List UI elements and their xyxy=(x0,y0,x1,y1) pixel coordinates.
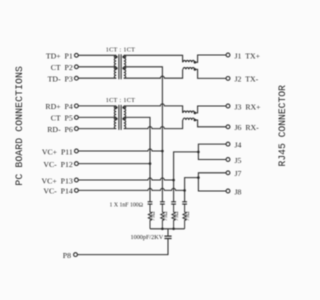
pin circle P5 xyxy=(75,116,79,120)
choke L2 bottom dot xyxy=(194,119,197,122)
svg-text:75Ω: 75Ω xyxy=(174,211,180,221)
svg-text:J3 RX+: J3 RX+ xyxy=(235,102,262,111)
capacitor C1 plates xyxy=(148,202,153,204)
svg-text:J7: J7 xyxy=(235,169,242,178)
svg-text:TD- P3: TD- P3 xyxy=(48,75,73,84)
wire P13 to rail3 (hops at rail1, rail2) xyxy=(78,178,173,180)
T2 dot primary CT xyxy=(115,118,118,121)
svg-text:P8: P8 xyxy=(63,251,71,260)
wire J7/J8 bracket xyxy=(198,173,226,191)
svg-text:1CT : 1CT: 1CT : 1CT xyxy=(106,97,136,104)
svg-text:J1 TX+: J1 TX+ xyxy=(235,51,261,60)
svg-text:75Ω: 75Ω xyxy=(185,211,191,221)
svg-text:CT P5: CT P5 xyxy=(51,114,73,123)
choke L1 top dot xyxy=(194,61,197,64)
wire T2 secondary bottom to choke L2 (hops at rail1, rail2) xyxy=(124,120,183,129)
svg-text:RD- P6: RD- P6 xyxy=(47,125,73,134)
choke L2 top winding xyxy=(183,111,195,113)
svg-text:1 X 1nF 100Ω: 1 X 1nF 100Ω xyxy=(110,203,144,209)
choke L2 top dot xyxy=(194,112,197,115)
T2 polarity dot primary top xyxy=(115,106,118,109)
wire choke L1 bottom to J2 xyxy=(195,69,226,78)
junction dot P14/rail4 xyxy=(183,189,186,192)
transformer T1 core xyxy=(119,54,121,79)
wire J7/J8 tie to rail4 xyxy=(185,178,199,202)
choke L1 top winding xyxy=(183,60,195,62)
junction dot bus/leg2 xyxy=(161,228,164,231)
wire bus to capacitor C5 xyxy=(167,229,169,236)
pin circle P11 xyxy=(75,149,79,153)
wire T1 secondary CT to rail2 xyxy=(124,67,163,202)
pin circle J7 xyxy=(226,171,230,175)
wire P6 to T2 primary bottom xyxy=(78,128,116,130)
pin circle P14 xyxy=(75,189,79,193)
capacitor C2 plates xyxy=(160,202,165,204)
pin circle J5 xyxy=(226,158,230,162)
wire P14 to rail4 (hops at rail1, rail2, rail3) xyxy=(78,188,184,190)
svg-text:1CT : 1CT: 1CT : 1CT xyxy=(106,47,136,54)
wire P12 to rail1 xyxy=(78,163,150,165)
svg-text:J6 RX-: J6 RX- xyxy=(235,123,260,132)
svg-text:VC+ P11: VC+ P11 xyxy=(42,147,73,156)
svg-text:CT P2: CT P2 xyxy=(51,63,73,72)
pin circle P8 xyxy=(74,253,78,257)
svg-text:VC- P14: VC- P14 xyxy=(43,187,73,196)
svg-text:TD+ P1: TD+ P1 xyxy=(46,52,73,61)
svg-text:1000pF/2KV: 1000pF/2KV xyxy=(131,234,164,241)
junction dot P11/rail2 xyxy=(161,150,164,153)
capacitor C5 plates xyxy=(164,236,171,238)
junction dot J7/J8 xyxy=(197,176,200,179)
T1 polarity dot primary top xyxy=(115,56,118,59)
resistor R4 xyxy=(183,204,186,229)
pin circle J4 xyxy=(226,142,230,146)
pin circle P13 xyxy=(75,178,79,182)
junction dot bus/leg3 xyxy=(172,228,175,231)
resistor R1 xyxy=(148,204,151,229)
pin circle P2 xyxy=(75,65,79,69)
junction dot P13/rail3 xyxy=(172,179,175,182)
wire P1 to T1 primary top xyxy=(78,54,116,56)
resistor R3 xyxy=(172,204,175,229)
T1 polarity dot secondary top xyxy=(122,56,125,59)
choke L1 bottom winding xyxy=(183,68,195,70)
svg-text:75Ω: 75Ω xyxy=(163,211,169,221)
transformer T2 primary winding xyxy=(114,106,116,129)
T2 polarity dot secondary top xyxy=(122,106,125,109)
wire P2 to T1 primary CT xyxy=(78,66,116,68)
pin circle J2 xyxy=(226,77,230,81)
pin circle P3 xyxy=(75,76,79,80)
wire J4/J5 tie to rail3 xyxy=(174,152,199,202)
transformer T1 secondary winding xyxy=(124,55,126,78)
svg-text:VC+ P13: VC+ P13 xyxy=(42,176,73,185)
svg-text:J5: J5 xyxy=(235,156,242,165)
choke L1 bottom dot xyxy=(194,68,197,71)
svg-text:PC BOARD CONNECTIONS: PC BOARD CONNECTIONS xyxy=(14,66,25,186)
T2 dot secondary CT xyxy=(122,118,125,121)
pin circle J8 xyxy=(226,189,230,193)
wire choke L2 bottom to J6 xyxy=(195,120,226,127)
pin circle J1 xyxy=(226,53,230,57)
wire choke L1 top to J1 xyxy=(195,55,226,62)
wire P4 to T2 primary top xyxy=(78,105,116,107)
T1 dot primary CT xyxy=(115,67,118,70)
junction dot J4/J5 xyxy=(197,151,200,154)
wire T1 secondary bottom to choke L1 (hop at rail2) xyxy=(124,69,183,78)
transformer T1 primary winding xyxy=(114,55,116,78)
junction dot P12/rail1 xyxy=(149,162,152,165)
capacitor C3 plates xyxy=(171,202,176,204)
svg-text:J8: J8 xyxy=(235,187,242,196)
pin circle J3 xyxy=(226,104,230,108)
svg-text:J2 TX-: J2 TX- xyxy=(235,75,259,84)
wire P3 to T1 primary bottom xyxy=(78,77,116,79)
T1 dot secondary CT xyxy=(122,67,125,70)
pin circle P12 xyxy=(75,162,79,166)
wire T2 secondary top to choke L2 (hop at rail2) xyxy=(124,104,183,113)
svg-text:VC- P12: VC- P12 xyxy=(43,160,73,169)
wire J4/J5 bracket xyxy=(198,144,226,159)
pin circle P1 xyxy=(75,53,79,57)
resistor R2 xyxy=(161,204,164,229)
svg-text:75Ω: 75Ω xyxy=(151,211,157,221)
svg-text:J4: J4 xyxy=(235,140,242,149)
transformer T2 core xyxy=(119,105,121,130)
wire T1 secondary top to choke L1 xyxy=(124,55,183,62)
pin circle P6 xyxy=(75,127,79,131)
capacitor C4 plates xyxy=(182,202,187,204)
wire choke L2 top to J3 xyxy=(195,106,226,113)
svg-text:RJ45 CONNECTOR: RJ45 CONNECTOR xyxy=(277,85,288,167)
pin circle J6 xyxy=(226,125,230,129)
svg-text:RD+ P4: RD+ P4 xyxy=(45,102,72,111)
choke L2 bottom winding xyxy=(183,118,195,120)
wire P11 to rail2 (hop at rail1) xyxy=(78,149,162,151)
wire T2 secondary CT to rail1 xyxy=(124,117,150,201)
pin circle P4 xyxy=(75,104,79,108)
wire bottom bus xyxy=(150,228,185,230)
wire P5 to T2 primary CT xyxy=(78,116,116,118)
transformer T2 secondary winding xyxy=(124,106,126,129)
wire C5 to P8 xyxy=(78,239,169,255)
